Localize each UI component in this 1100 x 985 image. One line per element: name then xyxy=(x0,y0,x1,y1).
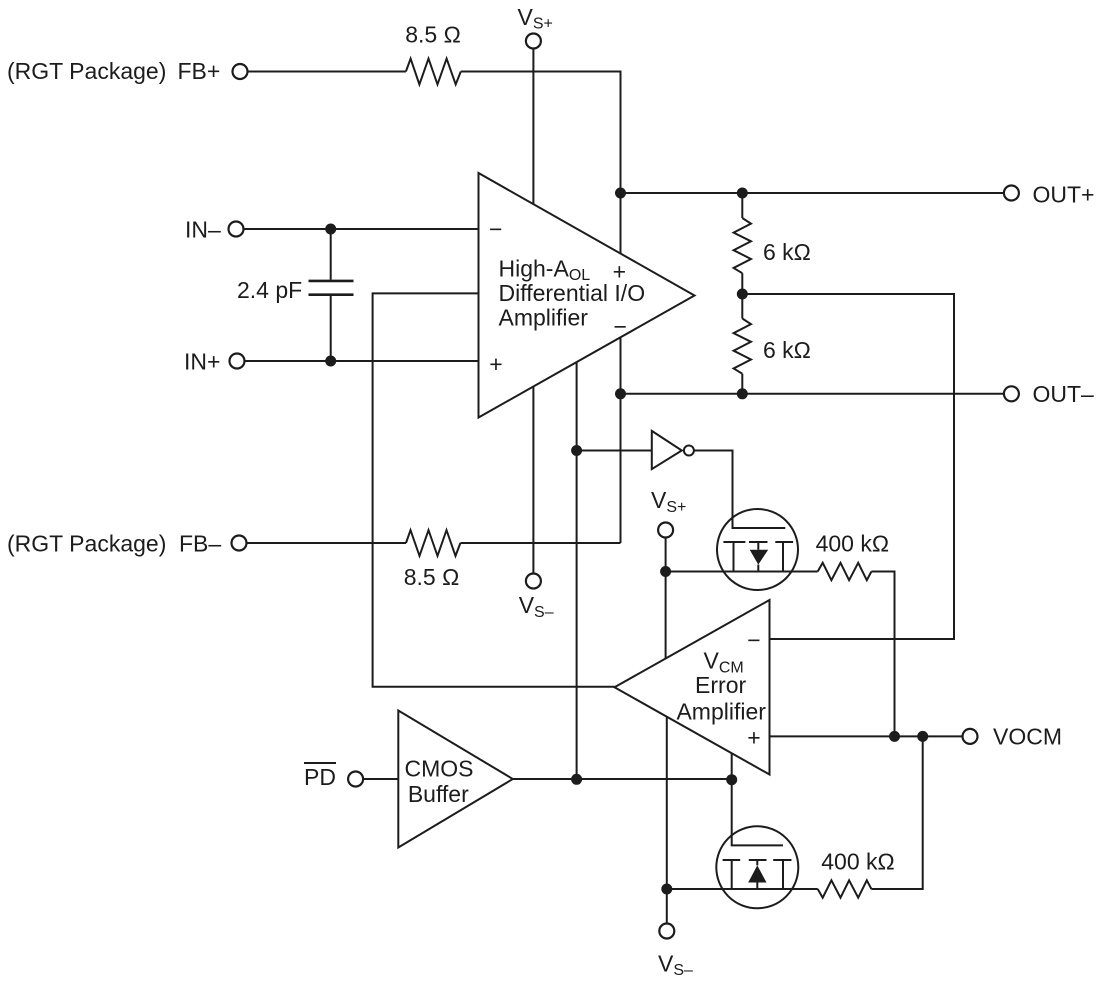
terminal OUT+ xyxy=(1004,186,1019,201)
inverter U4 xyxy=(652,431,682,469)
svg-text:(RGT Package): (RGT Package) xyxy=(7,58,166,84)
terminal VOCM xyxy=(963,729,978,744)
transistor Q1 drain leg xyxy=(782,542,784,572)
node VS+ mid junction xyxy=(660,566,671,577)
wire 6k bottom to OUT- line xyxy=(741,374,743,394)
svg-text:Differential I/O: Differential I/O xyxy=(499,280,646,306)
svg-text:VS–: VS– xyxy=(519,592,554,621)
terminal FB- xyxy=(232,536,247,551)
node OUT- / FB- junction xyxy=(615,388,626,399)
transistor Q1 gate bar xyxy=(723,541,793,543)
inverter U4 bubble xyxy=(684,446,694,456)
svg-text:2.4 pF: 2.4 pF xyxy=(237,277,302,303)
terminal IN+ xyxy=(230,354,245,369)
terminal IN- xyxy=(229,222,244,237)
svg-text:−: − xyxy=(489,216,502,242)
resistor R1 6 kOhm xyxy=(734,218,751,273)
wire OUT- line xyxy=(621,393,1005,395)
svg-text:VS+: VS+ xyxy=(651,487,686,516)
svg-text:IN+: IN+ xyxy=(184,349,220,375)
svg-text:400 kΩ: 400 kΩ xyxy=(821,848,894,874)
op-amp U2 VCM Error Amplifier xyxy=(615,600,770,775)
wire inverter input xyxy=(577,450,652,452)
svg-text:CMOS: CMOS xyxy=(405,755,474,781)
wire top MOSFET rail xyxy=(666,571,818,573)
svg-text:+: + xyxy=(747,725,760,751)
wire VCM error amp + input to VOCM terminal xyxy=(770,735,964,737)
wire 400k top to VOCM node xyxy=(871,572,894,737)
svg-text:VS+: VS+ xyxy=(518,4,553,33)
wire between 6k resistors xyxy=(741,273,743,318)
wire VS- supply from VCM error amp bottom edge down to VS- terminal xyxy=(666,717,668,924)
transistor Q1 source leg xyxy=(733,542,735,572)
terminal OUT- xyxy=(1004,386,1019,401)
svg-text:8.5 Ω: 8.5 Ω xyxy=(404,564,460,590)
svg-text:VOCM: VOCM xyxy=(993,723,1062,749)
svg-text:Amplifier: Amplifier xyxy=(676,698,766,724)
terminal VS- bottom xyxy=(659,924,674,939)
wire CMOS buffer output xyxy=(513,778,732,780)
svg-text:FB–: FB– xyxy=(179,530,221,556)
wire VS+ supply into VCM error amp top edge xyxy=(665,572,667,659)
wire OUT+ node down to 6k resistor xyxy=(741,193,743,218)
node inverter input junction xyxy=(571,445,582,456)
wire capacitor top link xyxy=(330,229,332,280)
wire VOCM node down to bottom 400k xyxy=(871,736,922,889)
resistor R4 400 kOhm (bottom) xyxy=(818,880,872,897)
wire IN- line xyxy=(243,228,479,230)
transistor Q1 body arrow (down) xyxy=(757,542,759,572)
wire mid column from amp bottom edge down to buffer output line xyxy=(576,362,578,779)
svg-text:PD: PD xyxy=(304,764,336,790)
svg-text:IN–: IN– xyxy=(185,217,221,243)
node OUT+ / FB+ junction xyxy=(615,188,626,199)
capacitor C1 2.4 pF bottom plate xyxy=(309,293,354,296)
svg-text:400 kΩ: 400 kΩ xyxy=(816,531,889,557)
wire VS+ top drop into amplifier xyxy=(532,48,534,204)
wire OUT+ line xyxy=(621,192,1005,194)
node OUT+ / 6k junction xyxy=(737,188,748,199)
transistor Q2 body arrow (up) xyxy=(756,860,758,889)
svg-text:VS–: VS– xyxy=(658,950,693,979)
svg-text:(RGT Package): (RGT Package) xyxy=(7,530,166,556)
wire inverter output to top MOSFET gate xyxy=(694,451,785,529)
wire VS- drop from main amp xyxy=(532,387,534,575)
wire PD buffer input xyxy=(363,778,399,780)
wire capacitor bottom link xyxy=(330,296,332,361)
svg-text:−: − xyxy=(747,627,760,653)
node 6k midpoint junction xyxy=(737,289,748,300)
wire VCM error amp enable drop to bottom MOSFET gate xyxy=(732,753,783,845)
wire VS+ mid terminal drop xyxy=(665,537,667,572)
op-amp U1 High-AOL Differential I/O Amplifier xyxy=(479,173,695,418)
node VOCM / top 400k junction xyxy=(889,731,900,742)
buffer U3 CMOS Buffer xyxy=(398,711,513,848)
terminal VS+ top xyxy=(526,34,541,49)
svg-text:−: − xyxy=(613,313,626,339)
node OUT- / 6k junction xyxy=(737,388,748,399)
wire IN+ line xyxy=(244,360,479,362)
svg-text:6 kΩ: 6 kΩ xyxy=(763,239,811,265)
node IN+ capacitor junction xyxy=(325,356,336,367)
wire midpoint sense loop to VCM error amp - input xyxy=(742,294,954,639)
wire bottom MOSFET rail xyxy=(667,888,818,890)
wire amp - output column down to FB- wire xyxy=(620,337,622,543)
resistor 8.5 ohm (bottom, FB-) xyxy=(406,530,460,556)
resistor R3 400 kOhm (top) xyxy=(818,563,872,580)
svg-text:OUT+: OUT+ xyxy=(1033,181,1095,207)
transistor Q2 (bottom MOSFET) circle xyxy=(716,826,798,908)
capacitor C1 2.4 pF top plate xyxy=(309,280,354,283)
resistor 8.5 ohm (top, FB+) xyxy=(406,59,461,85)
terminal VS+ mid xyxy=(658,523,673,538)
wire FB- resistor to OUT- column xyxy=(460,542,620,544)
svg-text:OUT–: OUT– xyxy=(1033,381,1095,407)
node IN- capacitor junction xyxy=(325,224,336,235)
transistor Q2 drain leg xyxy=(782,860,784,889)
svg-text:+: + xyxy=(489,351,502,377)
svg-text:8.5 Ω: 8.5 Ω xyxy=(405,22,461,48)
svg-text:Buffer: Buffer xyxy=(408,781,469,807)
svg-text:Amplifier: Amplifier xyxy=(499,304,589,330)
node buffer output / gate junction xyxy=(726,774,737,785)
terminal FB+ xyxy=(233,64,248,79)
node VOCM / bottom 400k junction xyxy=(917,731,928,742)
wire FB+ input to resistor xyxy=(247,71,406,73)
transistor Q2 source leg xyxy=(731,860,733,889)
node buffer output junction xyxy=(571,774,582,785)
svg-text:6 kΩ: 6 kΩ xyxy=(763,337,811,363)
wire VCM error amp output feedback to main amp xyxy=(373,293,615,686)
transistor Q1 (top MOSFET) circle xyxy=(717,509,798,590)
node VS- bottom junction xyxy=(661,884,672,895)
wire FB- input to resistor xyxy=(246,542,406,544)
transistor Q2 gate bar xyxy=(723,859,792,861)
svg-text:Error: Error xyxy=(695,672,746,698)
terminal VS- below main amp xyxy=(526,574,541,589)
terminal PD xyxy=(348,772,363,787)
svg-text:FB+: FB+ xyxy=(178,58,221,84)
resistor R2 6 kOhm xyxy=(734,319,751,374)
wire FB+ resistor to corner then down to OUT+ node and amp + output xyxy=(461,72,621,254)
